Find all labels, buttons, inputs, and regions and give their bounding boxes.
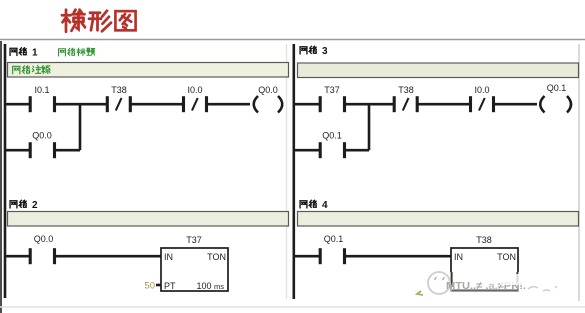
comment text 网络注释 (green) xyxy=(12,66,50,74)
contact Q0.0 xyxy=(30,248,54,264)
title 梯形图 (red) xyxy=(62,10,136,32)
contact T38 (NC) xyxy=(394,96,417,112)
svg-text:PT: PT xyxy=(164,281,176,291)
svg-text:Q0.0: Q0.0 xyxy=(34,234,54,244)
contact T38 (NC) xyxy=(107,96,130,112)
network 1 header 网络 1 xyxy=(10,48,26,56)
svg-text:T38: T38 xyxy=(111,85,127,95)
wire I0.1 to T38 xyxy=(56,103,108,106)
wire Q0.0 to T37 box xyxy=(56,255,162,258)
contact I0.0 (NC) xyxy=(184,96,207,112)
left pane right edge (faint) xyxy=(286,44,288,299)
wire Q0.1 to T38 box xyxy=(346,255,452,258)
svg-text:Q0.0: Q0.0 xyxy=(32,131,52,141)
network 4 header 网络 4 xyxy=(300,200,316,208)
timer box T38 xyxy=(451,248,518,291)
wire T37 to T38 xyxy=(346,103,395,106)
parallel branch wire xyxy=(5,149,30,152)
bottom border line xyxy=(0,306,585,308)
contact I0.0 (NC) xyxy=(471,96,494,112)
wire rail to I0.1 xyxy=(5,103,30,106)
svg-text:IN: IN xyxy=(454,252,463,262)
parallel branch wire xyxy=(295,149,320,152)
network 1 title 网络标题 (green) xyxy=(58,48,94,56)
branch wire to junction xyxy=(346,149,370,152)
svg-text:50: 50 xyxy=(144,281,155,292)
branch wire to junction xyxy=(56,149,81,152)
network 2 header 网络 2 xyxy=(10,200,26,208)
svg-text:T37: T37 xyxy=(186,235,202,245)
wire rail to Q0.1 xyxy=(295,255,320,258)
svg-text:4: 4 xyxy=(322,200,328,211)
wire T38 to I0.0 xyxy=(418,103,470,106)
left power rail xyxy=(4,44,7,298)
svg-text:3: 3 xyxy=(322,46,328,57)
junction vertical xyxy=(79,104,82,150)
svg-text:TON: TON xyxy=(497,252,516,262)
contact I0.1 xyxy=(30,96,54,112)
watermark smudge over network 4 box bottom xyxy=(417,272,557,295)
network 1 comment bar xyxy=(8,63,289,78)
network 3 header 网络 3 xyxy=(300,46,316,54)
network 4 comment bar (empty) xyxy=(298,212,579,227)
contact Q0.1 xyxy=(320,248,344,264)
right pane edge (faint) xyxy=(578,44,580,301)
svg-text:Q0.1: Q0.1 xyxy=(324,234,344,244)
network 3 comment bar (empty) xyxy=(298,63,579,78)
svg-text:I0.0: I0.0 xyxy=(187,85,202,95)
wire T38 to I0.0 xyxy=(131,103,183,106)
left window border xyxy=(0,41,2,313)
pane separator / right network power rail xyxy=(292,44,295,299)
svg-text:100 ms: 100 ms xyxy=(196,281,224,291)
svg-text:T38: T38 xyxy=(398,85,414,95)
svg-text:IN: IN xyxy=(164,252,173,262)
wire I0.0 to coil xyxy=(208,103,251,106)
svg-text:T37: T37 xyxy=(324,85,340,95)
top pane border (horizontal gray line) xyxy=(0,39,585,41)
contact T37 xyxy=(320,96,344,112)
svg-text:I0.1: I0.1 xyxy=(34,85,49,95)
coil Q0.0 xyxy=(254,96,283,113)
network 2 comment bar (empty) xyxy=(8,212,289,227)
timer box T37 xyxy=(161,248,228,291)
svg-text:Q0.0: Q0.0 xyxy=(258,85,278,95)
contact Q0.0 (branch) xyxy=(30,142,54,158)
svg-text:Q0.1: Q0.1 xyxy=(547,83,567,93)
junction vertical xyxy=(368,104,371,150)
PT input stub xyxy=(156,284,161,287)
coil Q0.1 xyxy=(540,96,571,113)
wire I0.0 to coil xyxy=(495,103,538,106)
svg-text:2: 2 xyxy=(32,200,38,211)
svg-text:Q0.1: Q0.1 xyxy=(322,131,342,141)
wire rail to Q0.0 xyxy=(5,255,30,258)
svg-text:1: 1 xyxy=(32,48,38,59)
contact Q0.1 (branch) xyxy=(320,142,344,158)
svg-text:T38: T38 xyxy=(476,235,492,245)
svg-text:I0.0: I0.0 xyxy=(474,85,489,95)
wire rail to T37 xyxy=(295,103,320,106)
svg-text:TON: TON xyxy=(207,252,226,262)
